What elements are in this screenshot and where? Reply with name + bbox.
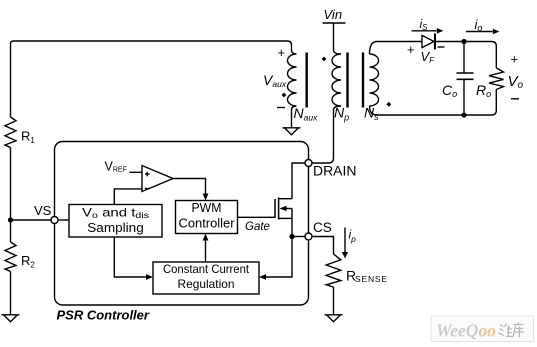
wire Rsense to ground — [333, 287, 335, 315]
wire Sampling block to Constant Current Regulation (arrow right) — [114, 237, 146, 277]
capacitor Co plates — [457, 73, 474, 79]
resistor Ro zigzag — [489, 68, 504, 90]
capacitor Co bottom lead — [463, 79, 465, 115]
wire MOSFET drain to DRAIN pin — [292, 163, 305, 199]
wire Vin to primary top — [334, 23, 342, 54]
svg-text:Constant Current: Constant Current — [163, 262, 250, 276]
wire junction to CS pin — [292, 236, 305, 238]
polarity dot Naux — [282, 93, 287, 98]
node CS pin circle — [305, 233, 312, 240]
inductor winding Naux — [288, 50, 297, 128]
transistor Q1 MOSFET channel bar — [278, 198, 280, 220]
ground (Naux) — [283, 128, 301, 135]
block Constant Current Regulation — [153, 262, 259, 294]
svg-text:VS: VS — [34, 203, 52, 218]
minus sign VF — [438, 46, 445, 48]
PSR Controller box — [55, 142, 309, 306]
node junction dot bottom rail — [461, 112, 466, 117]
current arrow ip — [344, 228, 346, 253]
wire VS pin into Sampling block — [58, 219, 69, 221]
wire Ns bottom to output bottom rail — [370, 90, 497, 116]
wire CS pin to Rsense — [312, 237, 334, 255]
minus sign Vaux — [277, 107, 285, 109]
inductor winding Np primary — [332, 54, 341, 106]
ground (Rsense) — [325, 315, 343, 322]
resistor Rsense zigzag — [326, 254, 341, 287]
node VS junction dot — [8, 217, 13, 222]
svg-text:Vin: Vin — [324, 7, 343, 22]
op-amp minus input marker — [145, 188, 150, 190]
wire PWM Controller to MOSFET gate — [238, 216, 276, 218]
polarity dot Np — [322, 57, 327, 62]
transistor Q1 MOSFET gate bar — [274, 199, 276, 218]
svg-text:Sampling: Sampling — [87, 221, 144, 235]
op-amp plus input marker — [145, 172, 150, 177]
wire left rail R1 to R2 — [10, 148, 12, 243]
watermark WeeQoo box — [431, 316, 534, 342]
svg-text:Gate: Gate — [245, 221, 270, 233]
wire op-amp output to PWM Controller (arrow down) — [173, 179, 206, 195]
svg-text:DRAIN: DRAIN — [313, 164, 357, 179]
wire top-left rail from left column to Naux top — [11, 41, 292, 117]
node VS pin circle — [51, 217, 58, 224]
inductor winding Ns secondary — [370, 54, 379, 106]
node DRAIN pin circle — [305, 160, 312, 167]
transformer core bar (aux) — [306, 53, 308, 108]
svg-text:Controller: Controller — [179, 217, 235, 231]
svg-text:WeeQoo: WeeQoo — [436, 321, 496, 341]
wire junction down to Constant Current Regulation (arrow left) — [266, 237, 293, 278]
op-amp U1 triangle — [142, 166, 173, 192]
transistor Q1 body arrow — [287, 208, 293, 210]
wire VS to PSR controller pin — [11, 219, 52, 221]
block Vo and tdis Sampling — [69, 205, 162, 238]
transformer core bar (secondary) — [362, 53, 364, 108]
transformer core bar (primary) — [346, 53, 348, 108]
transistor Q1 drain stub — [279, 198, 292, 200]
diode D1 cathode bar — [434, 33, 436, 49]
current arrow is — [412, 30, 437, 32]
resistor R2 — [5, 242, 16, 272]
wire R2 to ground — [10, 272, 12, 315]
diode D1 triangle — [422, 35, 434, 47]
transistor Q1 source stub — [279, 217, 292, 219]
wire diode cathode to output top rail — [436, 42, 496, 68]
svg-text:PSR Controller: PSR Controller — [57, 308, 150, 323]
wire Constant Current Regulation to PWM Controller (arrow up) — [205, 240, 207, 262]
watermark character ku — [513, 323, 524, 338]
wire Vin rail bar — [323, 22, 346, 24]
capacitor Co top lead — [463, 42, 465, 74]
wire op-amp minus input to Sampling block — [114, 189, 142, 205]
wire MOSFET source to CS junction — [291, 209, 293, 237]
svg-text:SENSE: SENSE — [355, 274, 388, 284]
minus sign Vo — [511, 98, 519, 100]
wire Vref to op-amp plus input — [130, 171, 143, 173]
svg-text:+: + — [278, 45, 286, 60]
wire Ns top to diode anode — [370, 42, 423, 55]
polarity dot Ns — [386, 102, 391, 107]
svg-text:Regulation: Regulation — [178, 277, 235, 291]
node junction dot at source/CS — [289, 234, 294, 239]
svg-text:PWM: PWM — [192, 201, 222, 215]
current arrow io — [466, 31, 493, 33]
resistor R1 — [5, 117, 16, 148]
node junction dot top rail — [461, 39, 466, 44]
watermark character wei — [499, 324, 514, 338]
svg-text:CS: CS — [313, 220, 332, 235]
block PWM Controller — [176, 201, 238, 234]
svg-text:+: + — [407, 42, 415, 57]
wire DRAIN pin to transformer primary bottom — [312, 106, 341, 163]
ground (left rail) — [2, 315, 20, 322]
svg-text:+: + — [511, 52, 519, 67]
